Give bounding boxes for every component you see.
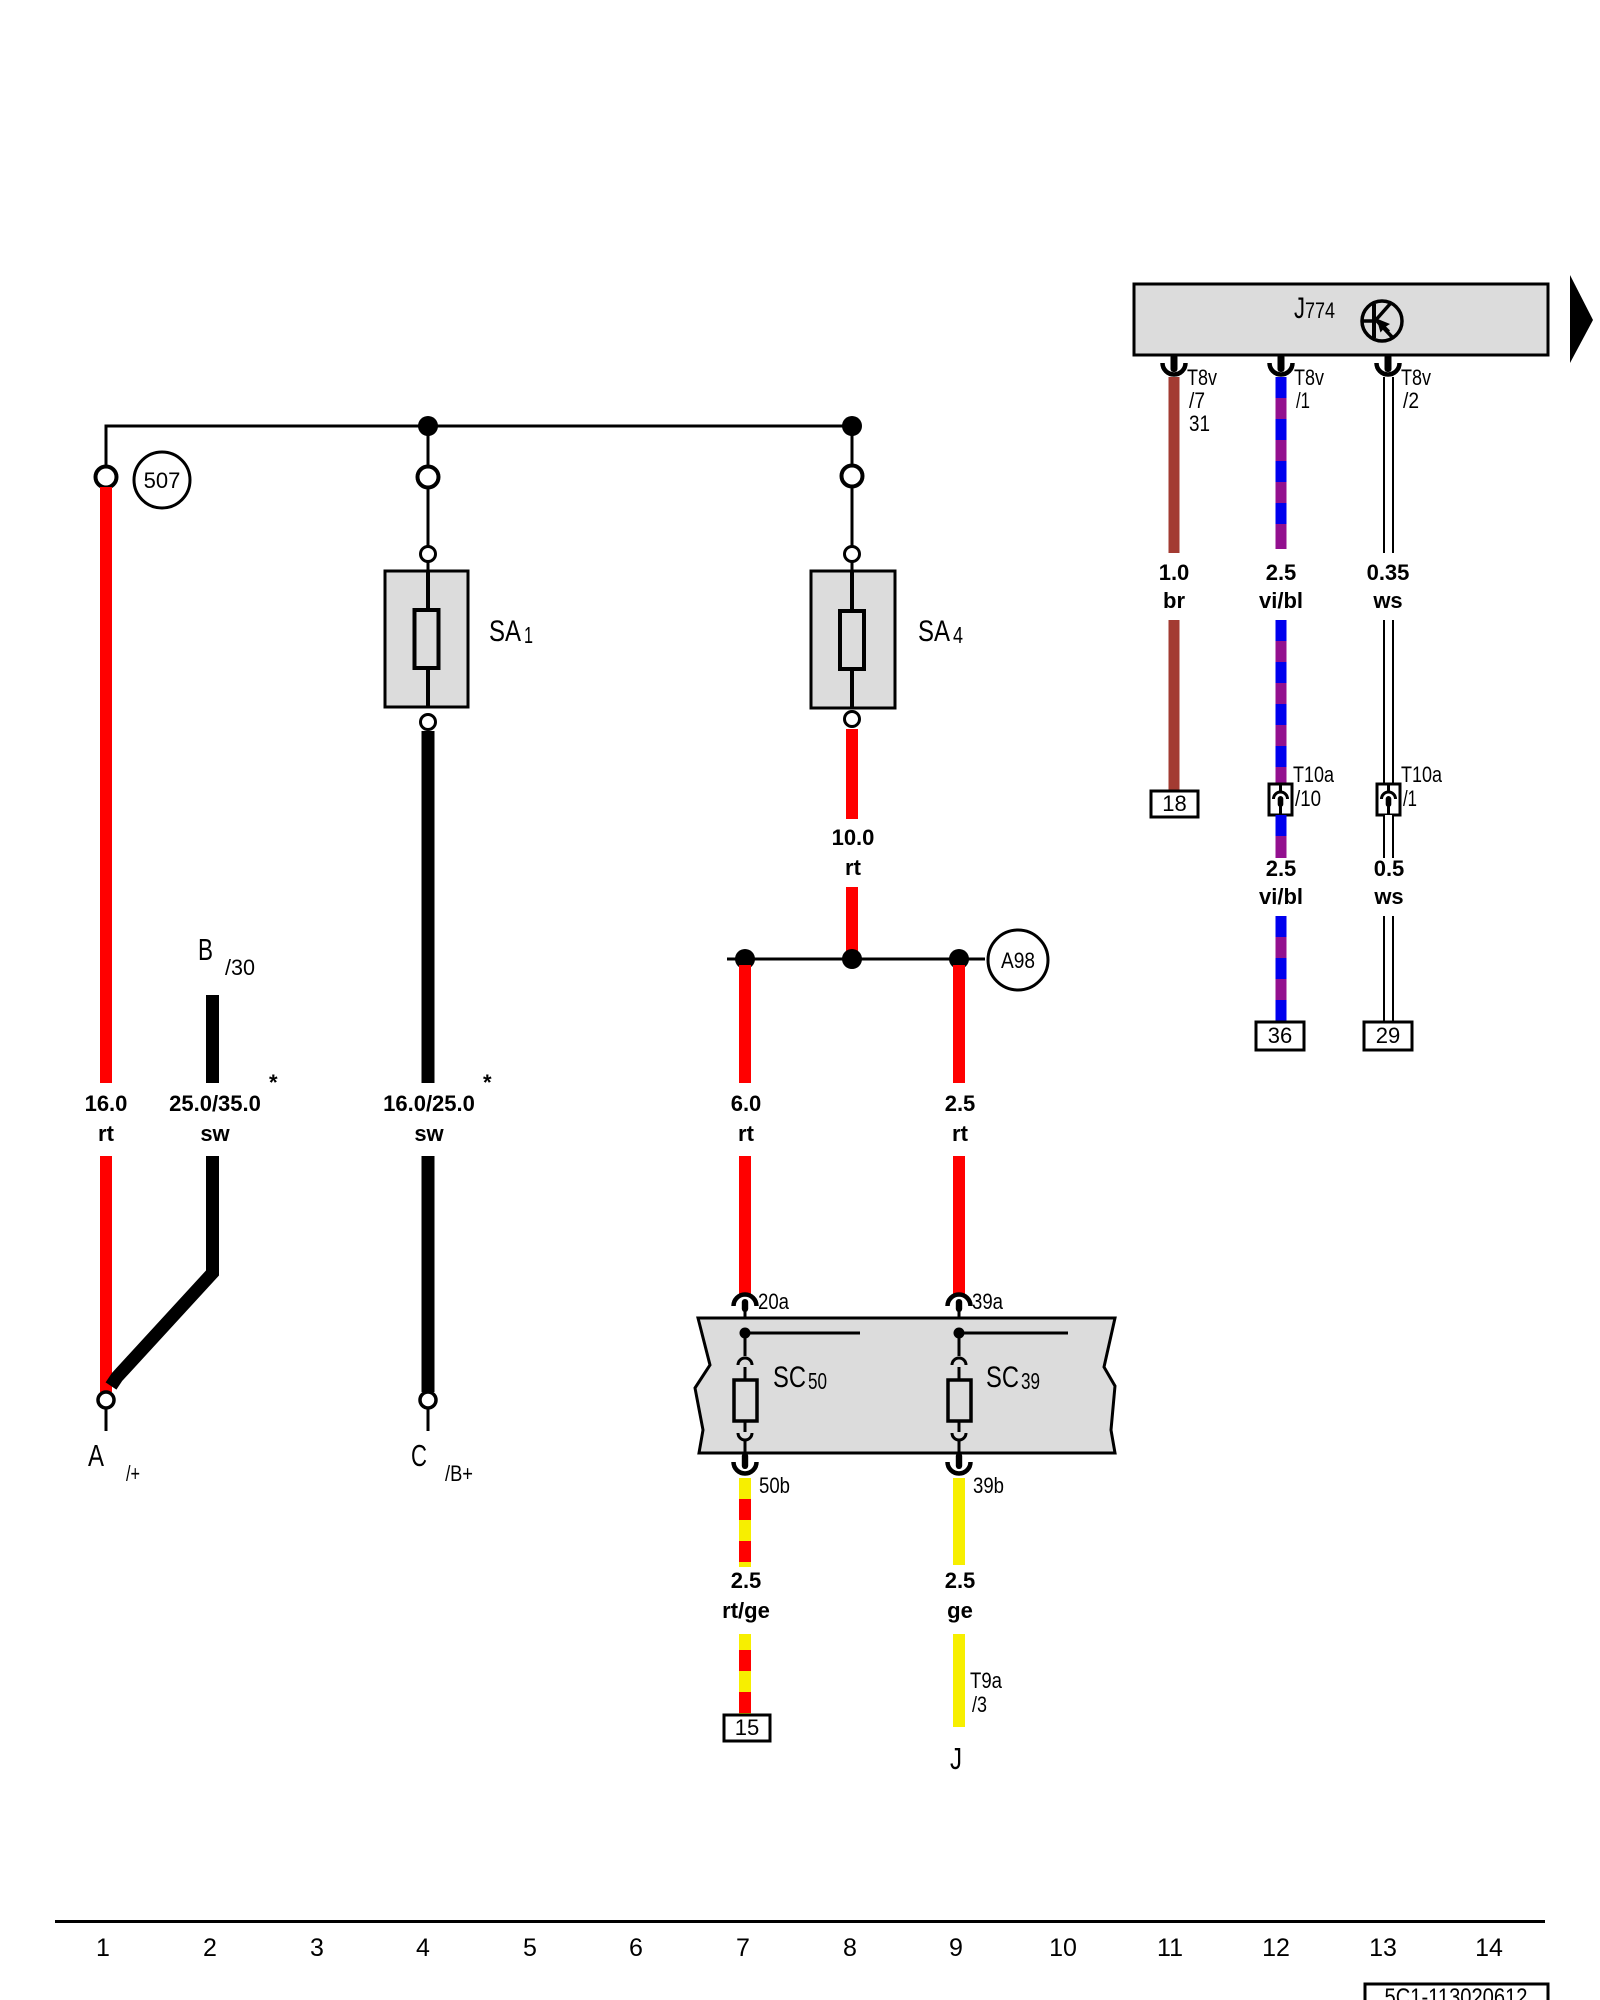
node inside SC39: [954, 1328, 965, 1339]
svg-text:3: 3: [310, 1934, 324, 1962]
node inside SC50: [740, 1328, 751, 1339]
ruler numbers: [96, 1934, 1503, 1962]
wire 2.5 rt lower segment: [953, 1156, 965, 1295]
terminal box 15: [724, 1715, 770, 1741]
svg-text:16.0: 16.0: [85, 1091, 128, 1116]
svg-text:29: 29: [1376, 1023, 1400, 1048]
wire 16.0 rt lower segment: [100, 1156, 112, 1392]
svg-text:11: 11: [1157, 1934, 1183, 1962]
connector 20a: [734, 1289, 790, 1333]
svg-text:SC: SC: [986, 1361, 1019, 1394]
svg-text:50: 50: [808, 1368, 827, 1394]
svg-text:ge: ge: [947, 1598, 973, 1623]
svg-text:25.0/35.0: 25.0/35.0: [169, 1091, 261, 1116]
svg-text:br: br: [1163, 588, 1185, 613]
svg-text:14: 14: [1475, 1934, 1503, 1962]
inline connector T10a/1: [1377, 762, 1443, 815]
svg-text:16.0/25.0: 16.0/25.0: [383, 1091, 475, 1116]
svg-text:B: B: [198, 932, 213, 967]
svg-text:rt: rt: [952, 1121, 969, 1146]
wire 6.0 rt lower segment: [739, 1156, 751, 1295]
wire 2.5 vi/bl segment 3: [1276, 815, 1287, 858]
svg-text:vi/bl: vi/bl: [1259, 884, 1303, 909]
svg-text:31: 31: [1189, 411, 1210, 436]
svg-text:vi/bl: vi/bl: [1259, 588, 1303, 613]
terminal box 18: [1151, 791, 1198, 817]
svg-text:39b: 39b: [973, 1473, 1004, 1498]
connector T8v/2: [1377, 354, 1432, 413]
svg-text:10.0: 10.0: [832, 825, 875, 850]
svg-text:1: 1: [524, 622, 533, 648]
wire 25.0/35.0 sw lower segment to terminal A: [111, 1156, 213, 1386]
svg-text:T8v: T8v: [1187, 365, 1217, 390]
terminal circle above SA1: [418, 467, 439, 488]
svg-text:4: 4: [416, 1934, 430, 1962]
svg-text:J: J: [950, 1741, 962, 1776]
wire 2.5 rt upper segment (col 9): [953, 965, 965, 1083]
svg-text:rt: rt: [845, 855, 862, 880]
svg-text:774: 774: [1305, 298, 1335, 323]
node 507 label circle: [134, 452, 190, 508]
junction dot at SA1 branch: [418, 416, 438, 436]
wire 16.0/25.0 sw upper segment (col 4): [422, 731, 435, 1083]
wire 0.5 ws segment 4: [1383, 916, 1394, 1022]
svg-text:6.0: 6.0: [731, 1091, 762, 1116]
wire 2.5 ge lower segment: [953, 1634, 965, 1727]
svg-text:/30: /30: [225, 955, 255, 980]
svg-text:1: 1: [96, 1934, 110, 1962]
node 507 terminal circle: [96, 467, 117, 488]
junction dot middle: [842, 949, 862, 969]
wire link SA4 top: [851, 486, 854, 546]
svg-text:sw: sw: [414, 1121, 444, 1146]
wire 6.0 rt upper segment (col 7): [739, 965, 751, 1083]
wire 16.0 rt upper segment (col 1): [100, 487, 112, 1083]
wire 0.5 ws segment 3: [1383, 815, 1394, 858]
node A98 label circle: [988, 930, 1048, 990]
svg-text:rt: rt: [738, 1121, 755, 1146]
connector T8v/1: [1270, 354, 1325, 413]
svg-text:/2: /2: [1403, 388, 1419, 413]
wire 25.0/35.0 sw upper segment (col 2): [206, 995, 219, 1083]
svg-text:/3: /3: [972, 1692, 987, 1717]
fuse carrier box SC: [695, 1318, 1115, 1453]
svg-text:0.35: 0.35: [1367, 560, 1410, 585]
svg-text:7: 7: [736, 1934, 750, 1962]
svg-text:5: 5: [523, 1934, 537, 1962]
svg-text:39: 39: [1021, 1368, 1040, 1394]
fuse SC39: [948, 1333, 971, 1458]
pin circle SA4 bottom: [845, 712, 860, 727]
wire 2.5 ge upper segment: [953, 1478, 965, 1565]
connector 50b: [734, 1453, 791, 1498]
junction dot right: [949, 949, 969, 969]
connector T8v/7: [1163, 354, 1218, 436]
svg-text:/1: /1: [1403, 786, 1417, 811]
svg-text:/7: /7: [1189, 388, 1205, 413]
svg-text:rt/ge: rt/ge: [722, 1598, 770, 1623]
svg-text:rt: rt: [98, 1121, 115, 1146]
wire top bus 30a: [106, 426, 852, 467]
wire link SA1 top: [427, 487, 430, 546]
svg-text:2.5: 2.5: [1266, 560, 1297, 585]
terminal C circle: [420, 1392, 436, 1408]
svg-text:T10a: T10a: [1293, 762, 1335, 787]
svg-text:J: J: [1294, 292, 1305, 325]
junction dot left: [735, 949, 755, 969]
electronics symbol in J774: [1362, 301, 1402, 341]
svg-text:6: 6: [629, 1934, 643, 1962]
wire 16.0/25.0 sw lower segment: [422, 1156, 435, 1392]
svg-text:5C1-113020612: 5C1-113020612: [1385, 1984, 1528, 2000]
wire 2.5 rt/ge upper segment: [739, 1478, 751, 1567]
junction dot at SA4 branch: [842, 416, 862, 436]
fuse SC50: [734, 1333, 757, 1458]
svg-text:15: 15: [735, 1715, 759, 1740]
svg-text:*: *: [269, 1070, 278, 1095]
svg-text:9: 9: [949, 1934, 963, 1962]
wire 2.5 vi/bl segment 1 (col 12): [1276, 377, 1287, 549]
wire 10.0 rt lower segment: [846, 887, 858, 955]
part number box 5C1-113020612: [1365, 1984, 1548, 2000]
svg-text:/10: /10: [1295, 786, 1321, 811]
svg-text:A: A: [88, 1438, 104, 1473]
svg-text:2.5: 2.5: [731, 1568, 762, 1593]
svg-text:12: 12: [1262, 1934, 1290, 1962]
page continuation arrow: [1570, 275, 1593, 363]
wire 2.5 rt/ge lower segment: [739, 1634, 751, 1718]
svg-text:1.0: 1.0: [1159, 560, 1190, 585]
connector 39b: [948, 1453, 1005, 1498]
svg-text:2.5: 2.5: [945, 1568, 976, 1593]
svg-text:sw: sw: [200, 1121, 230, 1146]
svg-text:50b: 50b: [759, 1473, 790, 1498]
svg-text:2.5: 2.5: [1266, 856, 1297, 881]
wire 10.0 rt upper segment (col 8): [846, 729, 858, 819]
fuse SA1: [385, 571, 468, 707]
svg-text:A98: A98: [1001, 948, 1035, 973]
svg-text:4: 4: [953, 622, 963, 648]
svg-text:SA: SA: [489, 615, 521, 648]
control unit J774 box: [1134, 284, 1548, 355]
terminal circle above SA4: [842, 466, 863, 487]
wire 2.5 vi/bl segment 2: [1276, 620, 1287, 784]
node A98 bus line: [727, 958, 985, 961]
svg-text:8: 8: [843, 1934, 857, 1962]
svg-text:T9a: T9a: [970, 1668, 1003, 1693]
wire branch to SA1: [427, 426, 430, 466]
pin circle SA1 top: [421, 547, 436, 562]
svg-text:2: 2: [203, 1934, 217, 1962]
svg-text:SC: SC: [773, 1361, 806, 1394]
svg-text:0.5: 0.5: [1374, 856, 1405, 881]
svg-text:507: 507: [144, 468, 181, 493]
svg-text:/+: /+: [126, 1461, 140, 1486]
svg-text:*: *: [483, 1070, 492, 1095]
svg-text:SA: SA: [918, 615, 950, 648]
ruler line: [55, 1920, 1545, 1923]
svg-text:ws: ws: [1372, 588, 1402, 613]
svg-text:T8v: T8v: [1294, 365, 1324, 390]
wire 2.5 vi/bl segment 4: [1276, 916, 1287, 1022]
connector 39a: [948, 1289, 1004, 1333]
wire 1.0 br lower segment: [1169, 620, 1180, 790]
svg-text:36: 36: [1268, 1023, 1292, 1048]
svg-text:ws: ws: [1373, 884, 1403, 909]
svg-text:/1: /1: [1296, 388, 1310, 413]
svg-text:T10a: T10a: [1401, 762, 1443, 787]
terminal box 36: [1256, 1022, 1304, 1050]
terminal A circle: [98, 1392, 114, 1408]
svg-text:2.5: 2.5: [945, 1091, 976, 1116]
pin circle SA4 top: [845, 547, 860, 562]
svg-text:10: 10: [1049, 1934, 1077, 1962]
svg-text:C: C: [411, 1438, 427, 1473]
svg-text:20a: 20a: [758, 1289, 790, 1314]
wire 0.35 ws segment 2: [1383, 620, 1394, 784]
svg-text:18: 18: [1162, 791, 1186, 816]
wire 0.35 ws segment 1 (col 13): [1383, 377, 1394, 553]
wire 1.0 br upper segment (col 11): [1169, 377, 1180, 553]
svg-text:13: 13: [1369, 1934, 1397, 1962]
pin circle SA1 bottom: [421, 715, 436, 730]
svg-text:39a: 39a: [972, 1289, 1004, 1314]
svg-text:T8v: T8v: [1401, 365, 1431, 390]
inline connector T10a/10: [1269, 762, 1335, 815]
terminal box 29: [1364, 1022, 1412, 1050]
svg-text:/B+: /B+: [445, 1461, 473, 1486]
fuse SA4: [811, 571, 895, 708]
